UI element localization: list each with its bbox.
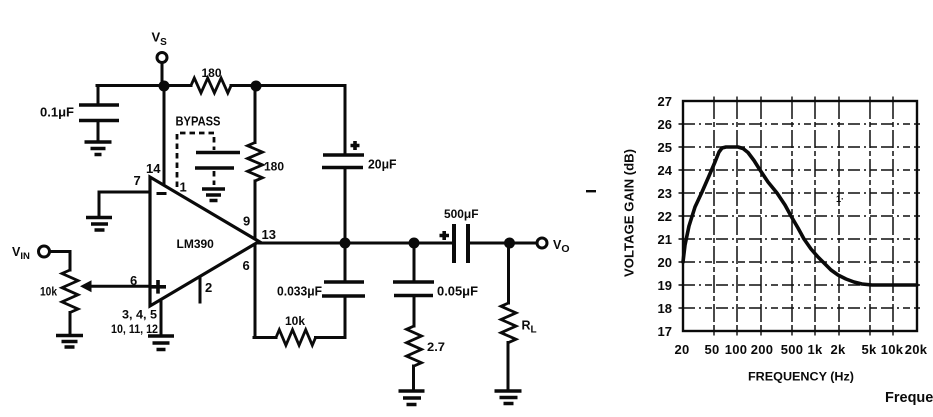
svg-text:LM390: LM390 bbox=[177, 237, 215, 251]
svg-text:21: 21 bbox=[658, 232, 672, 247]
svg-text:2k: 2k bbox=[830, 342, 846, 357]
svg-text:10k: 10k bbox=[40, 287, 58, 299]
svg-text:6: 6 bbox=[243, 258, 250, 273]
svg-text:20: 20 bbox=[658, 255, 672, 270]
svg-text:19: 19 bbox=[658, 278, 672, 293]
svg-text:26: 26 bbox=[658, 117, 672, 132]
svg-text:0.033μF: 0.033μF bbox=[277, 285, 322, 299]
svg-text:10k: 10k bbox=[285, 314, 305, 328]
svg-text:2: 2 bbox=[205, 280, 212, 295]
svg-text:27: 27 bbox=[658, 94, 672, 109]
svg-text:200: 200 bbox=[751, 342, 774, 357]
svg-text:2.7: 2.7 bbox=[427, 340, 445, 354]
svg-text:9: 9 bbox=[243, 214, 250, 229]
svg-text:50: 50 bbox=[704, 342, 719, 357]
svg-text:180: 180 bbox=[264, 160, 284, 174]
svg-text:500: 500 bbox=[781, 342, 804, 357]
svg-text:3, 4, 5: 3, 4, 5 bbox=[122, 308, 157, 322]
svg-text:180: 180 bbox=[202, 66, 222, 80]
svg-text:0.1μF: 0.1μF bbox=[40, 106, 74, 120]
svg-text:10k: 10k bbox=[881, 342, 904, 357]
svg-text:20: 20 bbox=[674, 342, 689, 357]
svg-text:6: 6 bbox=[130, 273, 137, 288]
svg-text:5k: 5k bbox=[861, 342, 877, 357]
svg-text:25: 25 bbox=[658, 140, 672, 155]
svg-text:10, 11, 12: 10, 11, 12 bbox=[111, 322, 158, 336]
svg-text:22: 22 bbox=[658, 209, 672, 224]
svg-text:FREQUENCY (Hz): FREQUENCY (Hz) bbox=[748, 370, 854, 384]
svg-text:24: 24 bbox=[658, 163, 673, 178]
svg-text:500μF: 500μF bbox=[444, 207, 479, 221]
svg-text:20k: 20k bbox=[905, 342, 928, 357]
svg-text:23: 23 bbox=[658, 186, 672, 201]
svg-text:Freque: Freque bbox=[885, 390, 933, 406]
svg-text:0.05μF: 0.05μF bbox=[437, 285, 478, 299]
svg-text:BYPASS: BYPASS bbox=[176, 115, 221, 129]
svg-text:20μF: 20μF bbox=[368, 158, 397, 172]
svg-text:17: 17 bbox=[658, 324, 672, 339]
svg-text:1k: 1k bbox=[807, 342, 823, 357]
svg-text:18: 18 bbox=[658, 301, 672, 316]
svg-text:1·: 1· bbox=[836, 194, 844, 204]
svg-text:13: 13 bbox=[262, 227, 276, 242]
svg-text:7: 7 bbox=[134, 173, 141, 188]
svg-text:VOLTAGE GAIN (dB): VOLTAGE GAIN (dB) bbox=[622, 149, 637, 277]
svg-text:1: 1 bbox=[180, 180, 187, 195]
svg-text:14: 14 bbox=[146, 161, 161, 176]
svg-text:100: 100 bbox=[725, 342, 748, 357]
